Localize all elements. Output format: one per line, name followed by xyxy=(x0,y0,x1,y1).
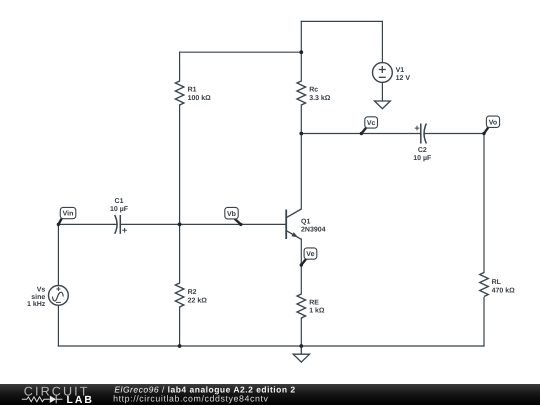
svg-text:Ve: Ve xyxy=(306,251,314,258)
svg-text:R2: R2 xyxy=(188,289,197,296)
wire left rail upper xyxy=(57,224,59,285)
node flag Vb xyxy=(225,207,243,226)
node flag Vc xyxy=(360,117,378,135)
wire V1 top lead xyxy=(381,21,383,62)
svg-text:Vo: Vo xyxy=(489,119,497,126)
svg-text:1 kHz: 1 kHz xyxy=(27,300,46,308)
node flag Vo xyxy=(482,116,499,135)
wire left rail lower xyxy=(57,305,59,346)
logo diode symbol xyxy=(50,396,56,403)
wire base left segment xyxy=(58,223,117,225)
resistor RE xyxy=(297,294,306,318)
svg-text:C2: C2 xyxy=(418,147,427,154)
resistor Rc xyxy=(297,81,306,105)
wire RE bottom lead xyxy=(300,318,302,346)
svg-text:sine: sine xyxy=(31,293,45,301)
wire RL top lead xyxy=(483,134,485,273)
svg-text:Vs: Vs xyxy=(37,286,46,293)
junction node R1 top / collector rail xyxy=(299,50,303,54)
svg-text:12 V: 12 V xyxy=(396,75,411,82)
svg-text:22 kΩ: 22 kΩ xyxy=(188,296,208,304)
resistor RL xyxy=(480,273,489,297)
wire bottom rail xyxy=(58,345,484,347)
wire emitter vertical xyxy=(300,239,302,294)
logo resistor-diode line xyxy=(22,395,63,403)
resistor R2 xyxy=(175,283,184,307)
svg-text:RL: RL xyxy=(492,279,502,286)
svg-text:C1: C1 xyxy=(115,198,124,205)
footer bar xyxy=(0,384,540,405)
svg-text:Rc: Rc xyxy=(309,87,318,94)
resistor R1 xyxy=(175,81,184,105)
ground below V1 xyxy=(375,101,391,109)
svg-text:10 µF: 10 µF xyxy=(413,155,432,162)
wire RL bottom lead xyxy=(483,298,485,347)
wire R1 top lead xyxy=(179,52,181,81)
junction node emitter / bottom rail xyxy=(299,344,303,348)
wire base right segment xyxy=(120,223,286,225)
svg-text:RE: RE xyxy=(309,299,319,306)
svg-text:Vb: Vb xyxy=(227,210,236,218)
wire R1 top horizontal xyxy=(180,51,302,53)
wire Rc bottom lead xyxy=(300,105,302,134)
svg-text:2N3904: 2N3904 xyxy=(301,227,326,234)
capacitor C2 xyxy=(415,124,427,144)
capacitor C1 xyxy=(115,215,127,234)
svg-text:3.3 kΩ: 3.3 kΩ xyxy=(309,94,331,102)
svg-text:LAB: LAB xyxy=(67,395,94,405)
svg-text:100 kΩ: 100 kΩ xyxy=(188,94,212,102)
junction node R2 / bottom rail xyxy=(178,344,182,348)
svg-text:Vc: Vc xyxy=(367,120,376,127)
wire collector rail upper xyxy=(300,21,302,81)
ground at bottom rail xyxy=(293,346,309,362)
wire R2 bottom lead xyxy=(179,307,181,346)
junction node Rc / Vc wire xyxy=(299,132,303,136)
transistor Q1 xyxy=(286,209,301,239)
wire V1 bottom lead xyxy=(381,82,383,101)
wire C2 to Vo corner xyxy=(424,133,484,135)
wire R1-R2 middle xyxy=(179,105,181,283)
wire top rail V+ xyxy=(301,20,382,22)
svg-text:V1: V1 xyxy=(396,67,405,74)
wire Vc horizontal to C2 xyxy=(301,133,421,135)
node flag Vin xyxy=(57,207,76,226)
junction node base wire / divider xyxy=(178,223,182,227)
svg-text:10 µF: 10 µF xyxy=(110,206,129,213)
svg-text:1 kΩ: 1 kΩ xyxy=(309,307,325,315)
wire collector vertical xyxy=(300,134,302,210)
svg-text:470 kΩ: 470 kΩ xyxy=(492,286,516,294)
node flag Ve xyxy=(300,248,317,267)
source V1 xyxy=(373,63,393,83)
svg-text:Q1: Q1 xyxy=(301,218,310,225)
svg-text:R1: R1 xyxy=(188,87,197,94)
source Vs xyxy=(49,286,69,306)
svg-text:Vin: Vin xyxy=(63,210,74,218)
svg-text:http://circuitlab.com/cddstye8: http://circuitlab.com/cddstye84cntv xyxy=(113,393,268,403)
